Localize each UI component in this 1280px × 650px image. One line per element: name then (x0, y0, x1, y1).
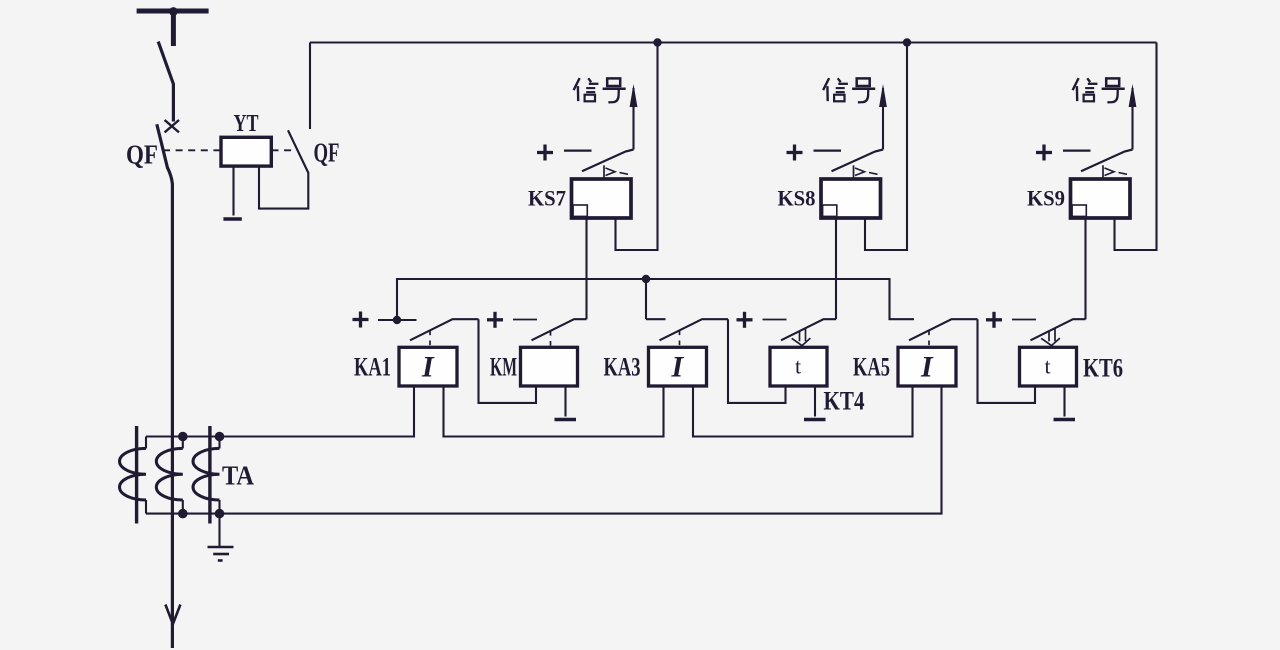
label t inside KT6 (1044, 354, 1050, 379)
plus polarity mark (KS7) (537, 145, 553, 161)
label I inside KA3 (671, 351, 685, 384)
current relay KA1 box (399, 347, 457, 386)
label KS9 (1027, 186, 1065, 211)
junction node on top bus (KS7 branch) (653, 38, 661, 46)
junction nodes on TA leads (178, 432, 224, 519)
svg-text:KA3: KA3 (604, 353, 641, 382)
plus polarity mark (KA1) (353, 312, 369, 328)
signal relay KS8 coil box (821, 179, 881, 218)
terminal stub (KM) (513, 319, 537, 321)
junction node second bus to KA3 (642, 275, 666, 319)
label 信号 (KS9) (1073, 78, 1125, 102)
wire: KA5 contact to coil of next relay (978, 319, 1036, 403)
KS7 inner terminal square (573, 205, 587, 216)
label KA3 (604, 353, 641, 382)
label t inside KT4 (795, 354, 801, 379)
TA ground lead (218, 514, 220, 547)
plus polarity mark (KS8) (787, 145, 803, 161)
minus polarity mark (KS7) (564, 149, 592, 151)
label KT4 (824, 387, 865, 416)
svg-text:I: I (421, 351, 435, 384)
svg-text:I: I (920, 351, 934, 384)
plus polarity mark (KT6) (986, 312, 1002, 328)
KS9 contact link and flag (1103, 165, 1127, 179)
wire: TA bottom return lead (146, 386, 942, 514)
svg-text:KS9: KS9 (1027, 186, 1065, 211)
label 信号 (KS7) (574, 78, 626, 102)
svg-text:KT4: KT4 (824, 387, 865, 416)
intermediate/time relay KM box (521, 347, 578, 386)
current transformer TA phase 3 (193, 426, 220, 524)
wire: TA top lead segment B (KA1 to KA3) (444, 386, 664, 437)
circuit breaker QF blade and feeder line (157, 124, 173, 648)
wire: KS7 right pin loop to top bus (616, 43, 658, 251)
X mark of breaker QF (165, 120, 179, 132)
junction node on top bus (KS8 branch) (903, 38, 911, 46)
signal relay KS7 coil box (572, 179, 632, 218)
KA1 contact blade (410, 319, 479, 340)
label KS7 (528, 186, 566, 211)
wire: KM ground pin (555, 386, 577, 420)
svg-text:KS8: KS8 (778, 186, 816, 211)
label I inside KA1 (421, 351, 435, 384)
label KA5 (853, 353, 890, 382)
signal output arrow (KS7) (630, 84, 638, 150)
wire: YT to QF aux contact (259, 166, 308, 209)
wire: KA1 contact to coil of next relay (479, 319, 537, 403)
plus polarity mark (KM) (487, 312, 503, 328)
junction node on KA1 stub (393, 316, 401, 324)
label TA (222, 461, 254, 491)
KS9 contact blade (1081, 150, 1133, 172)
feeder arrow head (165, 605, 180, 625)
svg-text:t: t (795, 354, 801, 379)
current transformer TA phase 2 (156, 437, 183, 514)
dashed link (KM) (550, 331, 552, 347)
svg-text:t: t (1044, 354, 1050, 379)
svg-text:KA5: KA5 (853, 353, 890, 382)
wire: KS9 left pin down to contact row (1084, 218, 1086, 319)
wire: top control bus (310, 41, 1157, 43)
signal relay KS9 coil box (1071, 179, 1131, 218)
label 信号 (KS8) (823, 78, 875, 102)
minus polarity mark (KS9) (1063, 149, 1091, 151)
busbar (137, 7, 209, 46)
wire: KT6 ground pin (1054, 386, 1076, 420)
wire: TA top lead segment C (KA3 to KA5) (693, 386, 913, 437)
svg-text:QF: QF (314, 138, 340, 168)
plus polarity mark (KS9) (1036, 145, 1052, 161)
label KM (490, 353, 517, 382)
current relay KA5 box (898, 347, 956, 386)
intermediate/time relay KT4 box (770, 347, 827, 386)
signal output arrow (KS9) (1129, 84, 1137, 150)
svg-text:QF: QF (126, 140, 158, 170)
svg-text:KA1: KA1 (354, 353, 391, 382)
label QF (breaker) (126, 140, 158, 170)
label I inside KA5 (920, 351, 934, 384)
current transformer TA phase 1 (119, 426, 146, 524)
KS7 contact blade (582, 150, 634, 172)
dashed link (KA5) (928, 331, 930, 348)
KS8 inner terminal square (823, 205, 837, 216)
svg-text:YT: YT (234, 111, 259, 137)
KA5 contact blade (909, 319, 978, 340)
svg-text:KS7: KS7 (528, 186, 566, 211)
wire: KT4 ground pin (804, 386, 826, 420)
label YT (234, 111, 259, 137)
svg-text:TA: TA (222, 461, 254, 491)
KS7 contact link and flag (604, 165, 628, 179)
terminal stub (KT4) (763, 319, 787, 321)
minus polarity mark (KS8) (814, 149, 842, 151)
label KA1 (354, 353, 391, 382)
KM contact blade (532, 319, 587, 340)
wire: KS8 right pin loop to top bus (865, 43, 907, 251)
wire: KS8 left pin down to contact row (835, 218, 837, 319)
svg-text:KM: KM (490, 353, 517, 382)
YT negative terminal (223, 166, 241, 219)
wire: KS9 right pin loop to top bus (1115, 43, 1157, 251)
wire: second bus with end drops (397, 279, 914, 320)
dashed link (KA3) (679, 331, 681, 348)
dashed linkage QF-YT (163, 149, 294, 151)
KS8 contact blade (832, 150, 884, 172)
wire: KA3 contact to coil of next relay (728, 319, 786, 403)
disconnector blade above breaker (158, 42, 173, 122)
wire: KS7 left pin down to contact row (585, 218, 587, 319)
KT4 contact blade (781, 319, 836, 340)
trip coil YT (221, 137, 271, 166)
current relay KA3 box (649, 347, 707, 386)
KS8 contact link and flag (854, 165, 878, 179)
delayed action arrow (KT4) (792, 329, 811, 346)
plus polarity mark (KT4) (737, 312, 753, 328)
KT6 contact blade (1031, 319, 1086, 340)
delayed action arrow (KT6) (1041, 329, 1060, 346)
KS9 inner terminal square (1072, 205, 1086, 216)
wire: TA top lead segment A (146, 386, 414, 437)
dashed link (KA1) (429, 331, 431, 348)
terminal stub (KA1) (378, 319, 417, 321)
svg-text:I: I (671, 351, 685, 384)
label QF (aux contact) (314, 138, 340, 168)
label KT6 (1083, 354, 1123, 383)
terminal stub (KT6) (1012, 319, 1036, 321)
KA3 contact blade (660, 319, 729, 340)
svg-text:KT6: KT6 (1083, 354, 1123, 383)
wire: aux contact upper lead (309, 43, 311, 130)
signal output arrow (KS8) (879, 84, 887, 150)
QF auxiliary contact blade (288, 130, 308, 173)
ground symbol (208, 547, 234, 561)
label KS8 (778, 186, 816, 211)
intermediate/time relay KT6 box (1020, 347, 1077, 386)
